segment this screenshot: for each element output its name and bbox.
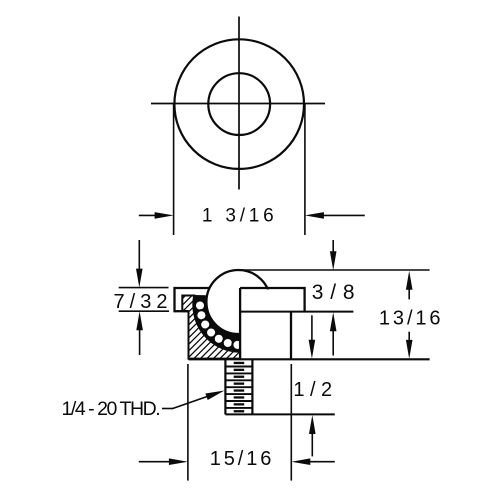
lip right edge bbox=[303, 287, 305, 312]
svg-text:1/2: 1/2 bbox=[293, 379, 337, 401]
bearing ball 6 bbox=[223, 338, 233, 348]
white mask hiding ball lower-right in exterior half bbox=[241, 289, 274, 336]
dimension 15/16 right arrow bbox=[308, 461, 335, 463]
ball race dark band bbox=[194, 295, 241, 351]
dimension 15/16 left arrow bbox=[139, 461, 172, 463]
bearing ball 5 bbox=[214, 334, 224, 344]
retainer lip top edge (left half) bbox=[175, 287, 210, 289]
dimension 7/32 upper arrow bbox=[138, 240, 140, 272]
top view horizontal centerline bbox=[151, 103, 325, 105]
dimension 1 3/16 left arrow bbox=[139, 214, 158, 216]
bearing ball 4 bbox=[206, 327, 216, 337]
svg-text:7/32: 7/32 bbox=[114, 291, 173, 313]
dimension 3/8 lower arrow bbox=[332, 329, 334, 356]
leader arrowhead bbox=[205, 391, 224, 401]
top view inner circle (ball) bbox=[208, 73, 270, 135]
bearing ball 7 bbox=[232, 340, 242, 350]
retainer lip outer edge bbox=[173, 287, 175, 312]
dimension 1 3/16 right extension line bbox=[304, 104, 306, 235]
threaded stud right edge bbox=[251, 359, 253, 414]
body right edge bbox=[290, 312, 292, 360]
dimension 15/16 right extension line bbox=[290, 364, 292, 481]
top view outer circle (housing flange) bbox=[174, 39, 304, 169]
dimension 13/16 upper arrow bbox=[408, 287, 410, 299]
bearing ball 2 bbox=[196, 310, 206, 320]
retainer lip bottom edge bbox=[175, 310, 189, 312]
lip bottom edge with 3/8 extension bbox=[240, 311, 353, 313]
dimension 7/32 upper extension line bbox=[119, 287, 169, 289]
svg-text:15/16: 15/16 bbox=[210, 448, 275, 470]
dimension 1 3/16 right arrow bbox=[321, 214, 365, 216]
section boundary vertical at centerline bbox=[239, 288, 241, 359]
main ball (section view) bbox=[206, 270, 270, 334]
dimension 1 3/16 left extension line bbox=[173, 104, 175, 235]
dimension 15/16 left extension line bbox=[187, 364, 189, 481]
stud thread core dashes bbox=[234, 362, 245, 413]
leader line diagonal bbox=[172, 396, 210, 409]
svg-text:13/16: 13/16 bbox=[379, 307, 444, 329]
dimension 1/2 lower arrow bbox=[311, 432, 313, 456]
dimension 7/32 lower arrow bbox=[139, 328, 141, 355]
leader line horizontal tick bbox=[162, 408, 173, 410]
stud thread crest lines bbox=[225, 367, 252, 408]
top view vertical centerline bbox=[238, 17, 240, 190]
bearing ball 3 bbox=[200, 319, 210, 329]
dimension 3/8 upper arrow bbox=[332, 240, 334, 254]
dimension 13/16 lower arrow bbox=[408, 332, 410, 342]
threaded stud left edge bbox=[224, 359, 226, 414]
body bottom line with 13/16 extension bbox=[189, 358, 430, 360]
svg-text:1/4 - 20 THD.: 1/4 - 20 THD. bbox=[62, 398, 160, 420]
svg-text:3/8: 3/8 bbox=[312, 281, 362, 304]
svg-text:1 3/16: 1 3/16 bbox=[202, 206, 278, 227]
lip top edge (right exterior half) bbox=[240, 287, 305, 289]
extension line at ball top (13/16 upper) bbox=[238, 269, 430, 271]
stud bottom edge with 1/2 extension bbox=[225, 413, 334, 415]
dimension 1/2 upper arrow bbox=[311, 315, 313, 342]
bearing ball 1 bbox=[195, 300, 205, 310]
dimension 7/32 lower extension line bbox=[119, 310, 169, 312]
housing cup cross-section with hatching bbox=[182, 296, 240, 359]
